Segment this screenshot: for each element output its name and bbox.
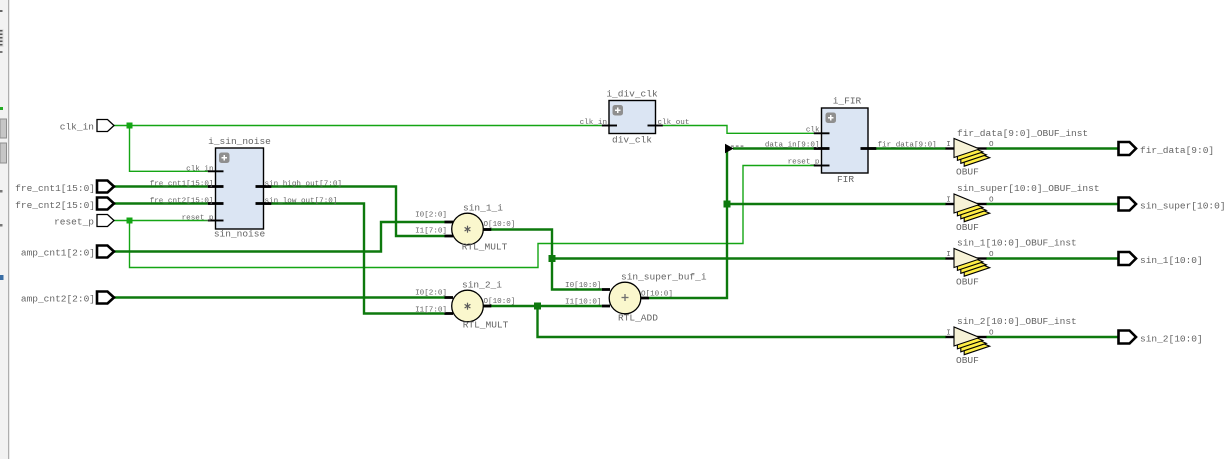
svg-text:sin_2[10:0]: sin_2[10:0] (1140, 334, 1203, 345)
svg-text:amp_cnt2[2:0]: amp_cnt2[2:0] (21, 294, 95, 305)
svg-text:I0[2:0]: I0[2:0] (415, 212, 447, 220)
svg-text:sin_1_i: sin_1_i (463, 203, 503, 214)
svg-text:sin_2[10:0]_OBUF_inst: sin_2[10:0]_OBUF_inst (957, 316, 1077, 327)
svg-text:sin_noise: sin_noise (214, 229, 266, 240)
svg-text:O[10:0]: O[10:0] (641, 291, 673, 299)
svg-text:sin_high_out[7:0]: sin_high_out[7:0] (265, 181, 342, 189)
svg-text:OBUF: OBUF (956, 167, 979, 178)
svg-text:clk_in: clk_in (186, 165, 213, 173)
svg-text:div_clk: div_clk (612, 135, 652, 146)
svg-text:sin_super[10:0]: sin_super[10:0] (1140, 201, 1225, 212)
svg-text:clk: clk (806, 126, 820, 134)
svg-text:I: I (946, 141, 951, 149)
svg-text:data_in[9:0]: data_in[9:0] (765, 141, 820, 149)
svg-text:fre_cnt1[15:0]: fre_cnt1[15:0] (150, 181, 214, 189)
svg-text:fir_data[9:0]: fir_data[9:0] (878, 141, 937, 149)
svg-text:O[10:0]: O[10:0] (484, 298, 516, 306)
svg-text:sin_super[10:0]_OBUF_inst: sin_super[10:0]_OBUF_inst (957, 183, 1100, 194)
svg-text:RTL_MULT: RTL_MULT (463, 320, 509, 331)
svg-text:clk_in: clk_in (60, 122, 94, 133)
svg-text:sin_1[10:0]: sin_1[10:0] (1140, 255, 1203, 266)
svg-text:i_div_clk: i_div_clk (606, 89, 658, 100)
svg-text:O: O (989, 141, 994, 149)
svg-text:reset_p: reset_p (54, 217, 94, 228)
svg-text:clk_in: clk_in (580, 119, 607, 127)
svg-text:fre_cnt2[15:0]: fre_cnt2[15:0] (150, 198, 214, 206)
svg-text:I1[7:0]: I1[7:0] (415, 307, 447, 315)
svg-text:reset_p: reset_p (182, 215, 214, 223)
svg-text:I1[10:0]: I1[10:0] (565, 299, 601, 307)
svg-text:FIR: FIR (837, 174, 854, 185)
svg-text:I0[2:0]: I0[2:0] (415, 290, 447, 298)
svg-text:sin_1[10:0]_OBUF_inst: sin_1[10:0]_OBUF_inst (957, 238, 1077, 249)
svg-text:I1[7:0]: I1[7:0] (415, 228, 447, 236)
svg-text:sin_super_buf_i: sin_super_buf_i (621, 272, 707, 283)
svg-text:amp_cnt1[2:0]: amp_cnt1[2:0] (21, 248, 95, 259)
svg-text:fre_cnt1[15:0]: fre_cnt1[15:0] (15, 183, 95, 194)
svg-text:reset_p: reset_p (788, 158, 820, 166)
svg-text:clk_out: clk_out (658, 119, 690, 127)
svg-text:O[10:0]: O[10:0] (484, 221, 516, 229)
svg-text:i_sin_noise: i_sin_noise (208, 136, 271, 147)
svg-text:fre_cnt2[15:0]: fre_cnt2[15:0] (15, 200, 95, 211)
svg-text:RTL_ADD: RTL_ADD (618, 313, 658, 324)
svg-text:RTL_MULT: RTL_MULT (462, 242, 508, 253)
svg-text:fir_data[9:0]: fir_data[9:0] (1140, 145, 1214, 156)
svg-text:fir_data[9:0]_OBUF_inst: fir_data[9:0]_OBUF_inst (957, 128, 1088, 139)
svg-text:sin_low_out[7:0]: sin_low_out[7:0] (265, 198, 338, 206)
svg-text:i_FIR: i_FIR (833, 96, 862, 107)
svg-text:I0[10:0]: I0[10:0] (565, 282, 601, 290)
svg-text:sin_2_i: sin_2_i (462, 280, 502, 291)
